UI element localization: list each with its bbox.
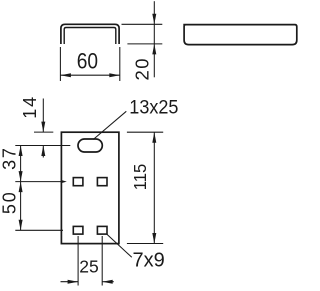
dim 115 arrow top — [152, 132, 156, 143]
svg-text:7x9: 7x9 — [133, 250, 165, 272]
svg-text:37: 37 — [0, 146, 20, 170]
dim 20 arrow top — [152, 14, 156, 25]
leader line for 13x25 — [93, 111, 126, 139]
svg-text:115: 115 — [129, 164, 150, 191]
hole lower-left — [73, 226, 83, 234]
hole lower-right — [97, 226, 107, 234]
svg-text:20: 20 — [132, 57, 153, 81]
small arrow on upper hole row line — [61, 180, 67, 183]
dim 60 arrow right — [109, 73, 120, 77]
dim 25 extension line left — [77, 236, 79, 286]
extension line lower hole row — [15, 229, 63, 231]
dim 14 arrow upper — [41, 122, 45, 133]
svg-text:13x25: 13x25 — [129, 96, 178, 118]
dim 14 extension line (plate top) — [34, 131, 53, 133]
side view slab (top-right) — [183, 25, 296, 45]
dim 50 arrow top — [19, 182, 23, 193]
svg-text:60: 60 — [77, 49, 98, 74]
dim 60 extension line right — [119, 47, 121, 81]
dim 115 arrow bottom — [152, 233, 156, 244]
slot 13x25 — [78, 139, 102, 152]
dim 25 arrow right — [102, 280, 113, 284]
dim 60 extension line left — [59, 47, 61, 81]
leader line for 7x9 — [107, 234, 132, 257]
hole upper-left — [73, 178, 83, 186]
dim 14 dimension line lower part — [42, 146, 44, 158]
dim 25 dimension line right part — [102, 281, 114, 283]
dim 25 arrow left — [68, 280, 79, 284]
dim 115 dimension line — [153, 132, 155, 243]
dim 37 arrow top — [19, 146, 23, 157]
svg-text:14: 14 — [20, 95, 40, 119]
plate outline (front view) — [61, 132, 119, 243]
dim 25 dimension line left part — [61, 281, 79, 283]
hole upper-right — [97, 178, 107, 186]
dim 14 dimension line upper part — [42, 99, 44, 133]
dim 20 arrow bottom — [152, 44, 156, 55]
U-channel profile inner contour — [64, 28, 116, 45]
U-channel profile outer contour (top-left view) — [61, 24, 119, 44]
dim 115 extension line top — [127, 131, 163, 133]
dim 20 extension line top — [122, 23, 163, 25]
dim 25 extension line right — [101, 236, 103, 286]
svg-text:25: 25 — [79, 256, 98, 276]
extension line slot centre — [15, 145, 70, 147]
dim 37-50 dimension line — [20, 146, 22, 231]
dim 20 dimension line — [153, 1, 155, 77]
extension line upper hole row — [15, 181, 63, 183]
dim 115 extension line bottom — [127, 243, 163, 245]
dim 50 arrow bottom — [19, 220, 23, 231]
dim 37 arrow bottom — [19, 171, 23, 182]
dim 60 dimension line — [60, 74, 119, 76]
dim 20 extension line bottom — [127, 43, 162, 45]
dim 14 arrow lower — [41, 146, 45, 157]
svg-text:50: 50 — [0, 190, 20, 214]
dim 60 arrow left — [60, 73, 71, 77]
